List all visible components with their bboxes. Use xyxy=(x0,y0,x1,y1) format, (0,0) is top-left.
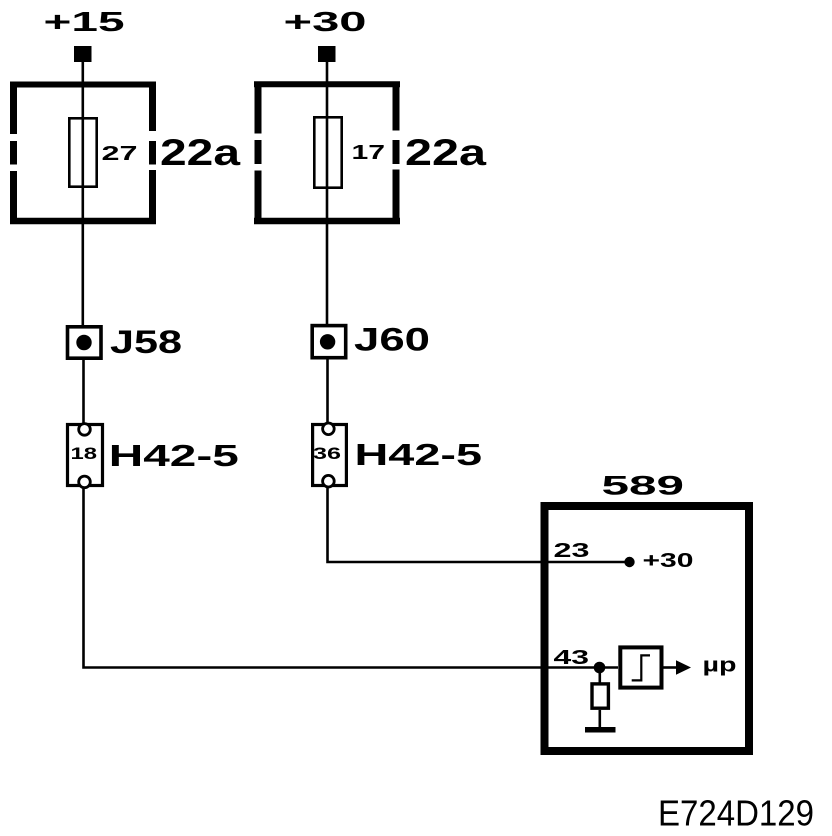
power terminal +30 xyxy=(318,46,336,62)
node: junction dot at pin 43 xyxy=(594,662,606,674)
wire: J60 to H42-5 pin 36 xyxy=(326,360,329,426)
svg-text:18: 18 xyxy=(71,445,98,463)
svg-text:17: 17 xyxy=(352,142,386,164)
svg-text:22a: 22a xyxy=(160,132,241,173)
svg-text:43: 43 xyxy=(554,647,590,669)
connector H42-5 pin 18 xyxy=(68,424,103,488)
wire: +15 terminal through fuse 27 to connector J58 xyxy=(82,60,85,326)
svg-text:J60: J60 xyxy=(354,322,430,358)
fuse 27 xyxy=(69,118,96,186)
svg-text:+15: +15 xyxy=(44,6,125,37)
ground xyxy=(585,727,616,733)
svg-text:+30: +30 xyxy=(643,550,694,572)
fuse 17 xyxy=(314,117,341,187)
fuse box 22a (holder of fuse 27) xyxy=(10,82,156,224)
svg-text:H42-5: H42-5 xyxy=(355,437,483,472)
connector H42-5 pin 36 xyxy=(313,423,347,487)
fuse box 22a (holder of fuse 17) xyxy=(254,82,400,225)
wire: pin 43 node to resistor xyxy=(598,668,601,684)
connector J58 xyxy=(68,327,102,358)
svg-text:22a: 22a xyxy=(405,132,487,173)
wire: H42-5 pin 36 to unit 589 pin 23 xyxy=(328,487,630,562)
power terminal +15 xyxy=(74,46,92,62)
wire: J58 to H42-5 pin 18 xyxy=(82,360,85,425)
wire: +30 terminal through fuse 17 to connector J60 xyxy=(326,60,329,325)
svg-text:23: 23 xyxy=(554,540,590,562)
svg-text:589: 589 xyxy=(602,471,685,501)
wire: resistor to ground xyxy=(598,710,601,727)
wire: detector output with arrow to microprocessor xyxy=(664,660,692,675)
svg-text:E724D129: E724D129 xyxy=(658,793,814,834)
connector J60 xyxy=(312,326,346,358)
svg-text:H42-5: H42-5 xyxy=(109,438,239,473)
svg-text:36: 36 xyxy=(313,445,341,463)
node: junction dot at pin 23 xyxy=(624,557,634,567)
threshold detector (schmitt trigger) xyxy=(620,647,661,687)
svg-text:µp: µp xyxy=(703,655,737,677)
svg-text:27: 27 xyxy=(102,143,138,165)
svg-text:+30: +30 xyxy=(284,6,367,37)
svg-text:J58: J58 xyxy=(110,324,182,360)
resistor (pull-down inside 589) xyxy=(592,684,608,708)
wire: H42-5 pin 18 to unit 589 pin 43 xyxy=(84,487,619,668)
control unit 589 xyxy=(545,506,750,751)
